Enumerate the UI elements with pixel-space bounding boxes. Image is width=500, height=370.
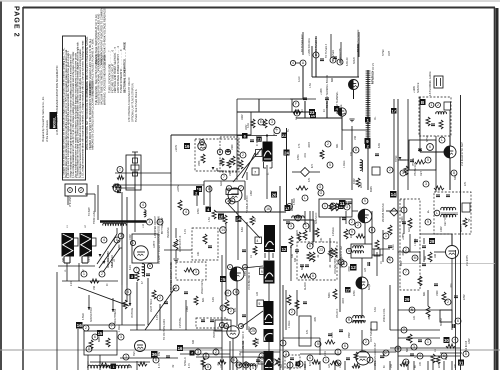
bl band circ b — [153, 357, 159, 363]
gap res a — [178, 200, 182, 210]
svg-text:.047: .047 — [428, 315, 431, 320]
tp bl5 — [111, 364, 117, 370]
svg-text:12BY7: 12BY7 — [153, 240, 156, 248]
svg-text:MIXER GRID: MIXER GRID — [107, 253, 110, 268]
rf res R1 — [201, 154, 205, 163]
svg-text:8: 8 — [355, 148, 357, 152]
swp cap f — [414, 239, 418, 241]
svg-text:25: 25 — [251, 329, 255, 333]
sweep diamond — [390, 208, 398, 216]
svg-text:47K: 47K — [310, 361, 312, 366]
mid2 circ b — [387, 167, 393, 173]
aud circ c — [289, 309, 295, 315]
tp 16b — [177, 345, 183, 351]
label stub xfmr — [358, 32, 360, 57]
tp B2 — [420, 99, 426, 105]
if vert 292 — [286, 128, 288, 211]
V4 tube — [230, 267, 244, 281]
if in wire 259 — [258, 99, 260, 111]
svg-text:PEAKING: PEAKING — [167, 227, 170, 238]
bot band wire e — [398, 355, 460, 357]
svg-text:180: 180 — [434, 253, 437, 258]
svg-text:180K: 180K — [199, 160, 201, 166]
svg-text:2: 2 — [85, 326, 87, 330]
svg-text:1K: 1K — [434, 349, 437, 352]
blk sq s1 — [190, 351, 195, 356]
res bl4 — [99, 363, 109, 367]
blk c3 — [97, 330, 103, 336]
svg-text:22K: 22K — [439, 363, 441, 368]
res w17 — [431, 354, 435, 363]
divider 280 — [279, 186, 281, 370]
res R81 — [428, 252, 432, 262]
scanner top edge strip — [0, 0, 500, 2]
V3 res R31 — [250, 216, 254, 225]
svg-text:22K: 22K — [297, 229, 299, 234]
cap C61 — [434, 283, 438, 285]
bot band circ d — [283, 351, 289, 357]
svg-text:8: 8 — [337, 361, 339, 365]
det wire — [268, 342, 270, 351]
video tube V2 — [134, 246, 148, 260]
svg-text:9: 9 — [351, 230, 353, 234]
wire w12 — [440, 352, 462, 354]
svg-text:2: 2 — [230, 309, 232, 313]
gap circ g — [173, 285, 179, 291]
tp 36 — [151, 351, 158, 358]
svg-text:8: 8 — [88, 347, 90, 351]
svg-text:5: 5 — [369, 358, 371, 362]
circ c4 — [92, 334, 98, 340]
tp C — [330, 57, 336, 63]
snd2 res c — [356, 234, 365, 238]
delay feed — [134, 222, 136, 232]
svg-text:AGC: AGC — [220, 181, 223, 186]
cap C22 — [242, 249, 246, 251]
rf res R2 — [220, 158, 224, 166]
cap d1 — [250, 139, 254, 141]
audio out tube V7 — [356, 277, 368, 289]
snd2 circ f — [295, 215, 301, 221]
svg-text:L: L — [436, 211, 438, 215]
if can T7 — [264, 351, 274, 370]
out tube V11 — [446, 246, 459, 259]
svg-text:L-PRINTED CIRCUIT: L-PRINTED CIRCUIT — [155, 215, 157, 238]
T6 tuning box — [257, 300, 264, 307]
svg-text:1N60: 1N60 — [186, 306, 189, 312]
svg-text:5: 5 — [159, 220, 161, 224]
svg-text:SNUB: SNUB — [353, 57, 356, 64]
svg-text:6V: 6V — [384, 365, 386, 368]
coil T2 leads — [81, 257, 83, 264]
snd2 cap a — [286, 221, 290, 223]
circ E2 — [294, 110, 300, 116]
circ si — [342, 343, 348, 349]
svg-text:.0047: .0047 — [342, 297, 345, 304]
tp 23 — [309, 109, 315, 115]
circ bl2 — [99, 271, 105, 277]
svg-text:+265V: +265V — [402, 233, 405, 240]
audio slug box — [371, 322, 377, 330]
wire 292b — [291, 199, 293, 211]
vert 383 — [382, 230, 384, 262]
mast lead — [134, 190, 136, 221]
tp f2 — [365, 143, 371, 149]
V4 link — [243, 266, 263, 268]
swp circ i — [445, 299, 451, 305]
if bus y212 — [216, 211, 286, 213]
bot res c — [352, 364, 360, 368]
drop 346 — [345, 211, 347, 224]
svg-text:47K: 47K — [306, 329, 309, 334]
circ bl7 — [125, 289, 131, 295]
svg-text:SOURCE: SOURCE — [417, 82, 420, 93]
svg-text:56K: 56K — [406, 347, 409, 352]
vert v57 — [56, 272, 58, 370]
swp circ b — [401, 207, 407, 213]
svg-text:IF INPUT: IF INPUT — [256, 135, 259, 146]
bot band circ h — [367, 357, 373, 363]
svg-text:1 MEG: 1 MEG — [343, 160, 346, 168]
bot band wire d — [360, 351, 396, 353]
circ v0 — [118, 233, 124, 239]
circ G2 — [318, 190, 324, 196]
circ G1 — [317, 184, 323, 190]
res c5 — [89, 340, 93, 349]
svg-text:4: 4 — [389, 258, 391, 262]
svg-text:V5 4BZ7 3RD IF: V5 4BZ7 3RD IF — [242, 331, 245, 349]
svg-text:TO TUNER 4: TO TUNER 4 — [325, 43, 328, 58]
rf tube V1 — [198, 142, 206, 150]
bot band wire b — [240, 351, 280, 353]
aud wire f — [296, 290, 298, 316]
tp vpk — [130, 274, 135, 279]
svg-text:1500: 1500 — [231, 144, 234, 150]
svg-text:1500: 1500 — [229, 170, 232, 176]
bot band res e — [312, 360, 320, 364]
vert pair — [121, 192, 123, 285]
svg-text:5: 5 — [175, 286, 177, 290]
svg-text:1.8 TERMINAL GUIDE: 1.8 TERMINAL GUIDE — [429, 71, 432, 96]
svg-text:470: 470 — [320, 151, 323, 156]
sweep dashed tall box — [400, 199, 420, 290]
cap C2 — [320, 58, 324, 60]
osc slug box — [226, 189, 238, 195]
bot band wire c — [300, 353, 340, 355]
afc wire down — [449, 158, 451, 190]
res R51b — [344, 229, 348, 239]
afc wire up — [449, 136, 451, 146]
svg-text:4: 4 — [297, 216, 299, 220]
hout dashed box — [434, 192, 471, 234]
tp 29b — [404, 296, 410, 302]
keyer res R72 — [426, 117, 430, 126]
tube bl — [135, 341, 146, 352]
bot band cap d — [290, 357, 294, 359]
video peaking coil — [142, 264, 145, 276]
tp 24 — [284, 150, 290, 156]
svg-text:Prepared by Howard W. Sams: Prepared by Howard W. Sams & Co., Inc. — [42, 96, 45, 142]
bot band circ j — [403, 359, 409, 365]
svg-text:2: 2 — [447, 300, 449, 304]
keyer drop — [419, 97, 421, 152]
circ bl1 — [81, 271, 87, 277]
small tube left — [113, 184, 121, 192]
tuner coil T1 slug — [74, 238, 79, 246]
circ sbx1 — [322, 203, 328, 209]
circ s4 — [205, 364, 211, 370]
antenna terminal board — [65, 184, 87, 196]
tuner coil T2 slug — [92, 238, 97, 246]
V2 pin1 — [130, 240, 135, 245]
mid2 circ a — [353, 147, 359, 153]
circ w14 — [395, 346, 401, 352]
svg-text:V2 12BY7 VIDEO OUTPUT: V2 12BY7 VIDEO OUTPUT — [158, 234, 161, 264]
aud res g — [325, 340, 335, 344]
sweep bus 310 — [398, 309, 452, 311]
svg-text:1: 1 — [69, 188, 71, 192]
vid res a — [152, 290, 156, 299]
svg-text:1.5K: 1.5K — [309, 83, 312, 88]
svg-text:25: 25 — [221, 277, 226, 282]
svg-text:4: 4 — [142, 203, 144, 207]
tp 16c — [76, 322, 83, 329]
svg-text:1K: 1K — [323, 109, 326, 112]
bot band circ i — [383, 350, 389, 356]
svg-text:12K: 12K — [329, 363, 331, 368]
wire 269c — [268, 283, 270, 301]
drop 313 — [312, 211, 314, 247]
wire 267a — [266, 165, 268, 199]
ratio coil a — [353, 246, 364, 248]
circ s1 — [195, 349, 201, 355]
svg-text:47K: 47K — [312, 163, 314, 168]
speaker can — [264, 329, 274, 342]
box tp8 — [258, 358, 265, 365]
agc res R25 — [296, 186, 308, 190]
svg-text:500K: 500K — [328, 292, 331, 298]
svg-text:150K: 150K — [401, 216, 404, 222]
audio out tube V8 — [356, 351, 370, 365]
sound dashed box2 — [196, 318, 227, 328]
circ if16 — [265, 206, 272, 213]
bot band res a — [218, 360, 226, 364]
svg-text:6BL7: 6BL7 — [400, 260, 403, 266]
svg-text:G: G — [319, 185, 322, 189]
bot circ b — [297, 361, 303, 367]
tp 15b — [236, 216, 242, 222]
svg-text:47K: 47K — [298, 143, 301, 148]
swp wire g — [398, 251, 420, 253]
if vert 237 — [236, 99, 238, 180]
svg-text:4: 4 — [191, 352, 193, 356]
circ sd — [355, 222, 361, 228]
svg-text:12: 12 — [282, 247, 287, 252]
svg-text:4.7K: 4.7K — [184, 229, 187, 234]
svg-text:6AQ5: 6AQ5 — [368, 283, 371, 290]
boxes link — [435, 136, 437, 192]
svg-text:2.2MEG: 2.2MEG — [332, 227, 335, 236]
res bl8 — [123, 300, 127, 309]
svg-text:TP: TP — [291, 245, 293, 248]
vert 455 — [455, 250, 457, 370]
svg-text:B: B — [421, 100, 424, 105]
svg-text:OUT TRANS: OUT TRANS — [370, 328, 373, 342]
bus y99 short — [290, 98, 316, 100]
svg-text:220: 220 — [350, 233, 353, 238]
circ sh — [335, 349, 341, 355]
svg-text:2: 2 — [159, 296, 161, 300]
fan diag — [78, 287, 129, 306]
svg-text:2.2K: 2.2K — [70, 281, 73, 286]
box m5 — [372, 167, 380, 175]
circ d3 — [269, 119, 275, 125]
svg-text:7: 7 — [273, 360, 275, 364]
agc dotted box — [220, 137, 239, 172]
svg-text:2: 2 — [385, 351, 387, 355]
svg-text:.0047: .0047 — [308, 141, 311, 148]
svg-text:3: 3 — [125, 355, 127, 359]
svg-text:23: 23 — [310, 110, 315, 115]
swb cap c — [418, 339, 422, 341]
vid cap c — [164, 301, 168, 303]
sound comp box — [319, 199, 352, 217]
tp d6 — [242, 133, 248, 139]
V2 pin6 — [147, 263, 152, 268]
left bus y185 — [113, 184, 204, 186]
svg-text:+: + — [454, 338, 456, 342]
page border right — [494, 8, 496, 370]
svg-text:56K: 56K — [281, 363, 283, 368]
svg-text:30: 30 — [444, 338, 449, 343]
hout coil b — [441, 214, 456, 217]
mixer link diag — [242, 153, 255, 178]
res R32 — [223, 215, 227, 224]
bias res R11 — [203, 234, 207, 244]
vert 238 — [237, 202, 239, 260]
svg-text:45V: 45V — [158, 351, 161, 356]
svg-text:39K: 39K — [336, 143, 339, 148]
feed bus lower — [312, 76, 359, 78]
snd2 res a — [315, 228, 319, 237]
tuner coil T2 — [80, 233, 93, 257]
swp wire d — [403, 199, 405, 234]
wire 148 — [147, 310, 149, 325]
circ sa — [330, 203, 336, 209]
snd2 circ h — [341, 261, 347, 267]
svg-text:470K: 470K — [258, 338, 260, 344]
tp w7 — [444, 337, 450, 343]
svg-text:6: 6 — [149, 264, 151, 268]
pcb left edge — [170, 135, 172, 182]
mid2 wire a — [351, 126, 353, 190]
circ r1 — [423, 181, 429, 187]
afc wire left — [420, 151, 444, 153]
if bus y131 — [237, 135, 277, 137]
svg-text:2: 2 — [389, 168, 391, 172]
volume dashed box — [297, 242, 337, 280]
aud res b — [295, 300, 299, 309]
svg-text:3: 3 — [425, 182, 427, 186]
svg-text:PICTURE: PICTURE — [132, 307, 134, 318]
dotted coil row — [88, 365, 131, 368]
sound res R58 — [303, 230, 307, 240]
vert 269 low — [268, 362, 270, 370]
snd circ e — [338, 259, 344, 265]
bl band wire — [120, 357, 178, 359]
svg-text:23: 23 — [319, 248, 323, 252]
svg-text:1 MEG: 1 MEG — [118, 324, 121, 332]
swp circ e — [425, 219, 431, 225]
bus y325 — [83, 324, 145, 326]
aud cap d — [303, 301, 307, 303]
svg-text:4: 4 — [103, 238, 105, 242]
svg-text:.005: .005 — [314, 317, 317, 322]
svg-text:of the listed chassis: of the listed chassis — [46, 119, 49, 142]
cap w3 — [422, 245, 426, 247]
ratio coil b — [353, 251, 364, 253]
bot band circ b — [259, 353, 265, 359]
wire d5 — [246, 172, 248, 180]
svg-text:V4 6CB6 2ND IF: V4 6CB6 2ND IF — [248, 271, 251, 290]
cap C3 — [333, 56, 337, 58]
wire bl6 — [87, 355, 89, 368]
svg-text:2: 2 — [120, 234, 122, 238]
svg-text:3: 3 — [149, 220, 151, 224]
fan stub2 — [112, 298, 114, 312]
agc clamp tube — [338, 108, 346, 116]
mid2 res a — [356, 178, 360, 187]
bot band res k — [436, 356, 440, 364]
if top bus — [237, 111, 309, 113]
res ladder — [333, 289, 337, 299]
cap C4 — [303, 97, 307, 99]
svg-text:15: 15 — [98, 331, 103, 336]
audio box right — [299, 316, 311, 346]
gap dashed box — [176, 262, 206, 280]
svg-text:SHIELD: SHIELD — [184, 357, 187, 366]
keyer drop2 — [449, 110, 451, 136]
svg-text:PAGE 2: PAGE 2 — [13, 6, 20, 38]
if feed bus y99 — [237, 98, 303, 100]
if top stub — [258, 99, 260, 112]
vert 222 — [221, 255, 223, 370]
board cap — [117, 190, 121, 192]
svg-text:4: 4 — [257, 239, 259, 243]
circ L — [439, 137, 445, 143]
svg-text:SYNC: SYNC — [382, 49, 385, 56]
agc res R13 — [231, 156, 235, 165]
svg-text:PROBE: PROBE — [213, 329, 216, 338]
ratio slug — [374, 249, 380, 256]
svg-text:TUNER. SEE TUNER PAGE 3.: TUNER. SEE TUNER PAGE 3. — [135, 89, 138, 122]
gap circ f — [193, 269, 199, 275]
tp 26 — [285, 205, 291, 211]
svg-text:6: 6 — [94, 335, 96, 339]
svg-text:TWIN LEAD: TWIN LEAD — [93, 210, 96, 224]
circ c2 — [109, 323, 115, 329]
svg-text:10K: 10K — [197, 251, 200, 256]
circ v4d — [228, 308, 234, 314]
svg-text:1: 1 — [83, 272, 85, 276]
sound det tube V6 — [358, 209, 372, 223]
snd2 wire b — [376, 252, 378, 276]
cap sbx4 — [343, 201, 347, 203]
bl band circ a — [123, 354, 129, 360]
svg-text:5: 5 — [397, 347, 399, 351]
mid3 res a — [404, 166, 408, 175]
svg-text:8.2K: 8.2K — [129, 265, 132, 270]
